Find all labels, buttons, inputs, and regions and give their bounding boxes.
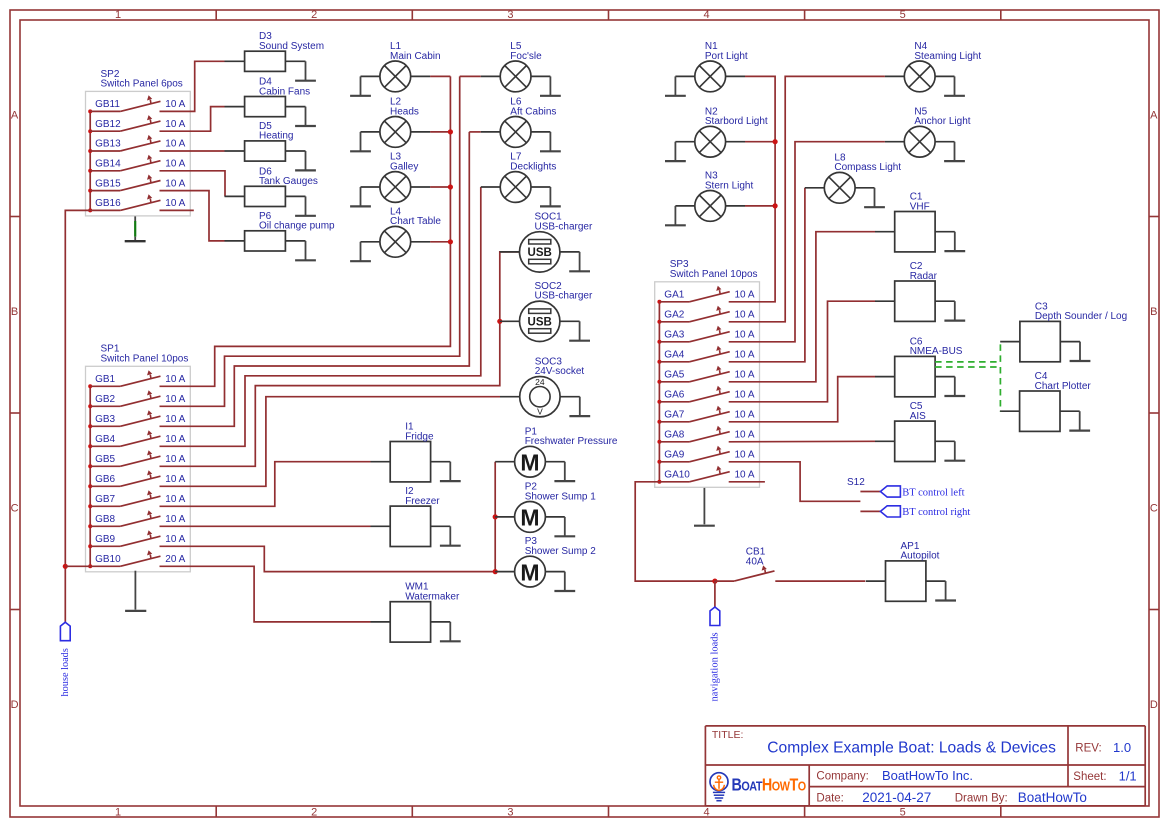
svg-text:10 A: 10 A	[735, 290, 755, 301]
svg-text:Switch Panel 10pos: Switch Panel 10pos	[101, 354, 189, 365]
svg-text:5: 5	[900, 9, 906, 21]
svg-text:GB15: GB15	[95, 178, 121, 189]
svg-text:Oil change pump: Oil change pump	[259, 221, 335, 232]
svg-text:GB11: GB11	[95, 99, 120, 110]
svg-text:Cabin Fans: Cabin Fans	[259, 86, 310, 97]
svg-text:10 A: 10 A	[165, 139, 185, 150]
svg-text:3: 3	[507, 807, 513, 819]
svg-text:GA10: GA10	[664, 470, 690, 481]
svg-text:BoatHowTo: BoatHowTo	[1018, 790, 1087, 805]
svg-text:2: 2	[311, 9, 317, 21]
svg-text:10 A: 10 A	[735, 470, 755, 481]
svg-text:GA6: GA6	[664, 390, 684, 401]
svg-text:10 A: 10 A	[735, 390, 755, 401]
svg-text:GB9: GB9	[95, 534, 115, 545]
svg-text:10 A: 10 A	[165, 119, 185, 130]
svg-text:1: 1	[115, 807, 121, 819]
svg-text:Company:: Company:	[816, 771, 868, 783]
svg-text:10 A: 10 A	[735, 450, 755, 461]
svg-text:Freshwater Pressure: Freshwater Pressure	[525, 436, 618, 447]
svg-text:USB: USB	[528, 316, 552, 328]
svg-text:GB1: GB1	[95, 374, 115, 385]
svg-text:GB6: GB6	[95, 474, 115, 485]
svg-text:10 A: 10 A	[165, 414, 185, 425]
svg-text:Compass Light: Compass Light	[834, 162, 901, 173]
svg-text:BT control right: BT control right	[902, 507, 970, 518]
svg-text:Aft Cabins: Aft Cabins	[510, 106, 556, 117]
svg-text:5: 5	[900, 807, 906, 819]
svg-text:10 A: 10 A	[735, 430, 755, 441]
svg-text:M: M	[520, 559, 539, 585]
svg-text:Chart Plotter: Chart Plotter	[1035, 381, 1092, 392]
svg-text:BOATHOWTO: BOATHOWTO	[732, 776, 806, 795]
svg-text:B: B	[1150, 306, 1157, 318]
svg-text:Tank Gauges: Tank Gauges	[259, 176, 318, 187]
svg-text:10 A: 10 A	[165, 178, 185, 189]
svg-text:GB14: GB14	[95, 159, 121, 170]
svg-text:10 A: 10 A	[735, 410, 755, 421]
svg-text:1: 1	[115, 9, 121, 21]
svg-text:Galley: Galley	[390, 161, 418, 172]
svg-text:20 A: 20 A	[165, 554, 185, 565]
svg-text:24: 24	[535, 377, 545, 387]
svg-text:Main Cabin: Main Cabin	[390, 51, 441, 62]
svg-text:10 A: 10 A	[165, 514, 185, 525]
svg-text:M: M	[520, 449, 539, 475]
svg-text:10 A: 10 A	[735, 350, 755, 361]
svg-text:AIS: AIS	[910, 411, 926, 422]
svg-text:24V-socket: 24V-socket	[535, 366, 585, 377]
svg-text:USB-charger: USB-charger	[535, 221, 593, 232]
svg-text:10 A: 10 A	[165, 434, 185, 445]
svg-text:Port Light: Port Light	[705, 51, 748, 62]
svg-text:GB4: GB4	[95, 434, 115, 445]
svg-text:GB16: GB16	[95, 198, 121, 209]
svg-text:GA8: GA8	[664, 430, 684, 441]
svg-text:D: D	[11, 699, 19, 711]
svg-text:BT control left: BT control left	[902, 487, 964, 498]
svg-text:2: 2	[311, 807, 317, 819]
svg-text:3: 3	[507, 9, 513, 21]
svg-text:GA9: GA9	[664, 450, 684, 461]
svg-text:Complex Example Boat: Loads &: Complex Example Boat: Loads & Devices	[767, 739, 1056, 756]
svg-text:GB7: GB7	[95, 494, 115, 505]
svg-text:Sound System: Sound System	[259, 41, 324, 52]
svg-text:4: 4	[703, 807, 709, 819]
svg-text:GA1: GA1	[664, 290, 684, 301]
svg-text:USB-charger: USB-charger	[535, 291, 593, 302]
svg-text:REV:: REV:	[1075, 742, 1101, 754]
svg-text:GA4: GA4	[664, 350, 684, 361]
svg-text:Heating: Heating	[259, 131, 293, 142]
svg-text:10 A: 10 A	[165, 99, 185, 110]
svg-text:Foc'sle: Foc'sle	[510, 51, 542, 62]
svg-text:C: C	[1150, 503, 1158, 515]
svg-text:10 A: 10 A	[165, 454, 185, 465]
svg-text:Stern Light: Stern Light	[705, 180, 754, 191]
svg-text:GA5: GA5	[664, 370, 684, 381]
svg-text:C: C	[11, 503, 19, 515]
svg-text:Starbord Light: Starbord Light	[705, 116, 768, 127]
svg-text:GB5: GB5	[95, 454, 115, 465]
svg-text:Sheet:: Sheet:	[1073, 771, 1106, 783]
svg-text:Autopilot: Autopilot	[901, 551, 940, 562]
svg-text:navigation loads: navigation loads	[710, 632, 721, 701]
svg-text:2021-04-27: 2021-04-27	[862, 790, 931, 805]
svg-text:GA3: GA3	[664, 330, 684, 341]
svg-text:TITLE:: TITLE:	[712, 729, 744, 741]
svg-text:1.0: 1.0	[1113, 740, 1131, 755]
svg-text:Anchor Light: Anchor Light	[914, 116, 970, 127]
svg-text:V: V	[537, 406, 543, 416]
svg-text:D: D	[1150, 699, 1158, 711]
svg-text:10 A: 10 A	[735, 310, 755, 321]
svg-text:GB8: GB8	[95, 514, 115, 525]
svg-text:10 A: 10 A	[165, 474, 185, 485]
svg-text:GB13: GB13	[95, 139, 121, 150]
svg-text:Watermaker: Watermaker	[405, 592, 460, 603]
svg-text:GA2: GA2	[664, 310, 684, 321]
svg-text:Shower Sump 2: Shower Sump 2	[525, 546, 597, 557]
svg-text:BoatHowTo Inc.: BoatHowTo Inc.	[882, 768, 973, 783]
svg-text:NMEA-BUS: NMEA-BUS	[910, 346, 963, 357]
svg-text:A: A	[11, 110, 19, 122]
svg-text:S12: S12	[847, 477, 865, 488]
svg-text:Drawn By:: Drawn By:	[955, 793, 1008, 805]
svg-text:Heads: Heads	[390, 106, 419, 117]
svg-text:A: A	[1150, 110, 1158, 122]
svg-text:VHF: VHF	[910, 201, 930, 212]
svg-text:M: M	[520, 505, 539, 531]
svg-text:B: B	[11, 306, 18, 318]
svg-text:Switch Panel 10pos: Switch Panel 10pos	[670, 269, 758, 280]
svg-text:house loads: house loads	[60, 648, 71, 696]
svg-text:GB3: GB3	[95, 414, 115, 425]
svg-text:Shower Sump 1: Shower Sump 1	[525, 491, 597, 502]
svg-text:1/1: 1/1	[1119, 768, 1137, 783]
svg-text:10 A: 10 A	[735, 370, 755, 381]
svg-text:GB2: GB2	[95, 394, 115, 405]
svg-text:GB12: GB12	[95, 119, 121, 130]
svg-text:Freezer: Freezer	[405, 496, 440, 507]
svg-text:4: 4	[703, 9, 709, 21]
svg-text:Switch Panel 6pos: Switch Panel 6pos	[101, 79, 183, 90]
svg-text:GB10: GB10	[95, 554, 121, 565]
svg-text:GA7: GA7	[664, 410, 684, 421]
svg-text:Radar: Radar	[910, 271, 938, 282]
svg-text:USB: USB	[528, 247, 552, 259]
svg-text:10 A: 10 A	[165, 159, 185, 170]
svg-text:10 A: 10 A	[165, 198, 185, 209]
svg-text:Date:: Date:	[816, 793, 844, 805]
svg-text:10 A: 10 A	[165, 374, 185, 385]
svg-text:Decklights: Decklights	[510, 161, 556, 172]
svg-text:Steaming Light: Steaming Light	[914, 51, 981, 62]
svg-text:Fridge: Fridge	[405, 431, 434, 442]
svg-text:10 A: 10 A	[165, 394, 185, 405]
svg-text:10 A: 10 A	[165, 494, 185, 505]
svg-text:Depth Sounder / Log: Depth Sounder / Log	[1035, 311, 1127, 322]
svg-text:40A: 40A	[746, 556, 764, 567]
svg-text:Chart Table: Chart Table	[390, 216, 441, 227]
svg-text:10 A: 10 A	[735, 330, 755, 341]
svg-text:10 A: 10 A	[165, 534, 185, 545]
